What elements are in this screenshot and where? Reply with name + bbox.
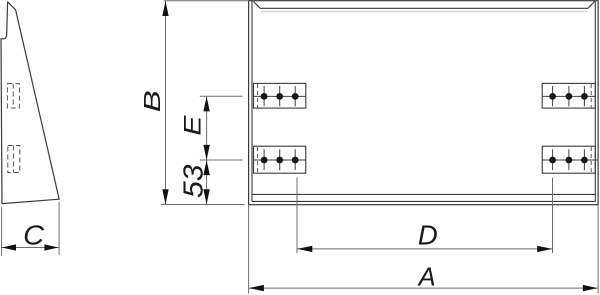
- dimension D extension line left: [296, 178, 298, 254]
- svg-text:C: C: [23, 219, 45, 250]
- dimension A arrow left: [249, 285, 264, 291]
- dimension 53 arrow top: [203, 160, 209, 175]
- front panel bottom inner fold line: [252, 193, 595, 195]
- dimension C line: [2, 247, 59, 249]
- dimension B arrow top: [162, 1, 168, 16]
- dimension B arrow bottom: [162, 189, 168, 204]
- front panel inner left edge: [251, 1, 253, 202]
- dimension E arrow bottom: [203, 145, 209, 160]
- mounting plate bottom-right: [542, 146, 598, 173]
- mounting plate top-left: [254, 83, 306, 108]
- dimension A extension line right: [597, 205, 599, 294]
- front panel outer rectangle: [249, 1, 598, 205]
- dimension C extension line right: [58, 202, 60, 255]
- front panel top inner fold line with chamfers: [254, 2, 595, 9]
- mounting plate top-right: [542, 83, 595, 108]
- dimension E/53 shared extension line: [200, 159, 243, 161]
- front panel inner right edge: [594, 1, 596, 202]
- dimension B bottom extension line: [161, 204, 245, 206]
- svg-text:E: E: [179, 114, 206, 135]
- svg-text:53: 53: [177, 164, 208, 198]
- dimension B line: [165, 1, 167, 205]
- dimension D extension line right: [552, 178, 554, 254]
- dimension 53 line: [206, 160, 208, 204]
- dimension D arrow left: [297, 246, 312, 252]
- hidden plate 1 (side view, dashed): [7, 84, 19, 108]
- svg-text:B: B: [139, 90, 165, 112]
- side view wedge outline: [1, 2, 59, 204]
- dimension D line: [297, 248, 552, 250]
- dimension A line: [249, 287, 598, 289]
- hidden plate 2 (side view, dashed): [8, 146, 20, 173]
- dimension 53 arrow bottom: [203, 189, 209, 204]
- dimension C arrow left: [2, 244, 16, 250]
- dimension A arrow right: [583, 285, 598, 291]
- svg-text:D: D: [418, 220, 438, 251]
- mounting plate bottom-left: [254, 146, 306, 173]
- svg-text:A: A: [417, 264, 436, 292]
- dimension D arrow right: [537, 246, 552, 252]
- dimension E arrow top: [203, 97, 209, 112]
- dimension A extension line left: [248, 205, 250, 294]
- front panel faint fold line: [261, 11, 588, 13]
- front panel bottom hem line: [252, 200, 595, 202]
- dimension E extension line top: [200, 95, 243, 97]
- dimension C arrow right: [44, 244, 58, 250]
- dimension C extension line left: [1, 207, 3, 256]
- dimension B top extension line: [164, 0, 249, 2]
- dimension E line: [206, 96, 208, 160]
